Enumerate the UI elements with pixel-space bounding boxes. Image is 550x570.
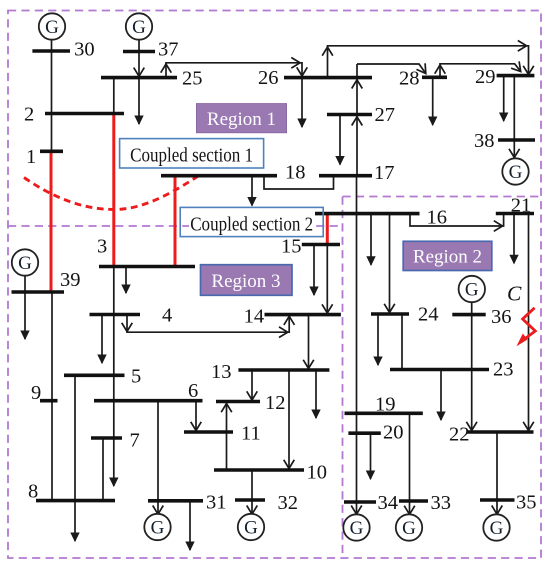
bus 31 bar	[148, 499, 203, 503]
wire line 6-31 to generator G31	[153, 401, 164, 515]
svg-text:2: 2	[24, 104, 34, 126]
bus 12 bar	[216, 400, 260, 404]
wire load arrow below bus 3	[122, 267, 130, 294]
red tie line bus 16 to bus 15 (coupled section 2)	[326, 214, 329, 245]
svg-text:G: G	[18, 253, 32, 274]
wire vertical line buses 3-4-5-6-7 with end arrow	[110, 267, 118, 487]
svg-text:12: 12	[265, 392, 286, 414]
svg-text:6: 6	[188, 380, 198, 402]
wire vertical 26-27-17 with flow arrows	[352, 64, 363, 176]
bus 28 bar	[422, 76, 447, 80]
generator G37	[126, 13, 152, 39]
wire line 7-8	[102, 438, 104, 501]
wire load arrow below bus 31	[186, 501, 194, 550]
wire line 10-11-12 with flow arrow	[221, 402, 232, 471]
wire line 26-28	[357, 63, 426, 73]
bus 37 bar	[123, 50, 155, 54]
bus 15 bar	[302, 243, 340, 247]
svg-text:14: 14	[244, 305, 265, 327]
bus 22 bar	[467, 430, 534, 434]
svg-text:4: 4	[162, 305, 172, 327]
wire bus 2 to bus 1	[51, 114, 53, 152]
svg-text:23: 23	[493, 359, 514, 381]
bus 30 bar	[32, 49, 70, 53]
wire load arrow below bus 26	[298, 78, 306, 127]
svg-text:27: 27	[375, 104, 396, 126]
svg-text:13: 13	[211, 361, 232, 383]
bus 16 bar	[315, 212, 420, 216]
generator G38	[502, 158, 528, 184]
bus 7 bar	[91, 436, 122, 440]
region 2 label box	[403, 241, 492, 270]
bus 11 bar	[184, 430, 233, 434]
bus 18 bar	[161, 174, 277, 178]
bus 36 bar	[452, 313, 485, 317]
wire link line 16-21	[410, 214, 504, 232]
wire line 15-14	[322, 245, 333, 315]
bus 35 bar	[480, 498, 515, 502]
wire line 5-8 and load arrow below bus 8	[71, 375, 79, 541]
bus 34 bar	[344, 500, 376, 504]
bus 5 bar	[64, 373, 125, 377]
wire load arrow below bus 24	[374, 314, 382, 365]
svg-text:10: 10	[307, 462, 328, 484]
bus 21 bar	[496, 212, 534, 216]
svg-text:G: G	[132, 17, 146, 38]
svg-text:G: G	[509, 162, 523, 183]
wire load arrow below bus 23	[437, 370, 445, 421]
svg-text:22: 22	[449, 424, 470, 446]
bus 10 bar	[214, 468, 304, 472]
bus 3 bar	[99, 265, 195, 269]
generator G39	[12, 249, 38, 275]
svg-text:29: 29	[475, 66, 496, 88]
bus 27 bar	[327, 113, 372, 117]
wire line 19-33 to generator G33	[404, 413, 415, 514]
generator G34	[343, 514, 369, 540]
region 1 / region 3 dashed divider	[8, 225, 343, 227]
bus 9 bar	[40, 399, 58, 403]
generator G33	[396, 514, 422, 540]
wire line 22-35 to generator G35	[492, 432, 503, 514]
generator G35	[483, 514, 509, 540]
svg-text:G: G	[244, 518, 258, 539]
wire load arrow below bus 29	[500, 76, 508, 121]
wire line 21-22 (fault line)	[523, 214, 534, 433]
svg-text:37: 37	[158, 39, 179, 61]
bus 13 bar	[238, 368, 329, 372]
svg-text:32: 32	[278, 492, 299, 514]
svg-text:39: 39	[60, 269, 81, 291]
svg-text:26: 26	[258, 67, 279, 89]
svg-text:28: 28	[399, 68, 420, 90]
svg-text:5: 5	[131, 366, 141, 388]
bus 26 bar	[284, 76, 372, 80]
red fault lightning bolt at line C	[517, 308, 536, 346]
svg-text:Region 3: Region 3	[211, 271, 280, 292]
generator G36	[459, 276, 485, 302]
wire line 13-12	[247, 370, 258, 402]
wire line G36-36-23-22	[466, 302, 477, 432]
red tie line bus 1 to bus 39	[50, 151, 53, 292]
bus 33 bar	[399, 499, 428, 503]
bus 6 bar	[94, 399, 203, 403]
wire generator G30 to bus 2	[51, 40, 53, 114]
svg-text:33: 33	[431, 492, 452, 514]
wire load arrow below bus 15	[310, 245, 318, 296]
wire line 25-26	[161, 58, 308, 78]
wire line 6-11	[191, 401, 202, 432]
bus 32 bar	[235, 498, 265, 502]
svg-text:20: 20	[383, 422, 404, 444]
coupled section 1 label box	[120, 139, 264, 168]
bus 4 bar	[90, 313, 141, 317]
coupled section 2 label box	[180, 207, 323, 236]
svg-text:G: G	[151, 518, 165, 539]
wire line 16-24	[384, 214, 395, 314]
wire line 10-32 to generator G32	[247, 470, 258, 514]
svg-text:21: 21	[511, 195, 532, 217]
wire generator G39 to bus 39	[24, 276, 26, 292]
wire vertical line 17-16-19-20-34 to generator G34	[351, 176, 362, 515]
wire load arrow below bus 27	[336, 115, 344, 165]
svg-text:G: G	[350, 518, 364, 539]
wire line 28-29	[435, 61, 521, 77]
svg-text:17: 17	[374, 162, 395, 184]
svg-text:G: G	[402, 518, 416, 539]
bus 8 bar	[36, 499, 115, 503]
wire load arrow below bus 21	[510, 214, 518, 264]
wire load arrow below bus 13	[312, 370, 320, 418]
svg-text:16: 16	[427, 207, 448, 229]
bus 38 bar	[498, 138, 535, 142]
wire line 24-23	[401, 314, 403, 370]
svg-text:Region 2: Region 2	[413, 247, 482, 268]
bus 25 bar	[101, 76, 177, 80]
wire bus 25 to bus 2	[113, 78, 115, 114]
wire link line 4-14	[122, 315, 295, 338]
region 2 dashed left border	[342, 197, 344, 559]
bus 39 bar	[12, 290, 65, 294]
svg-text:C: C	[507, 282, 522, 306]
wire flow arrow bus 4 toward bus 5	[98, 315, 106, 364]
svg-text:3: 3	[97, 236, 107, 258]
svg-text:30: 30	[74, 39, 95, 61]
bus 2 bar	[45, 112, 124, 116]
bus 19 bar	[345, 411, 423, 415]
svg-text:G: G	[465, 280, 479, 301]
svg-text:8: 8	[28, 481, 38, 503]
generator G31	[144, 514, 170, 540]
wire line 14-13	[303, 315, 314, 370]
svg-text:25: 25	[182, 67, 203, 89]
bus 20 bar	[348, 431, 380, 435]
svg-text:18: 18	[285, 162, 306, 184]
wire load arrow below bus 20	[367, 433, 375, 479]
svg-text:38: 38	[474, 130, 495, 152]
red dashed coupling curve	[24, 176, 199, 210]
bus 23 bar	[390, 368, 489, 372]
svg-text:19: 19	[375, 394, 396, 416]
wire load arrow below bus 28	[429, 77, 437, 125]
wire line 13-10	[284, 370, 295, 470]
svg-text:34: 34	[378, 492, 399, 514]
red tie line bus 2 to bus 3 (coupled section 1)	[112, 114, 115, 267]
wire line 26-29 upper route	[322, 41, 534, 78]
svg-text:Coupled section 1: Coupled section 1	[130, 145, 253, 167]
svg-text:Coupled section 2: Coupled section 2	[190, 214, 313, 236]
svg-text:11: 11	[241, 423, 261, 445]
region 3 label box	[201, 265, 293, 296]
svg-text:9: 9	[31, 382, 41, 404]
wire line 39-9-8	[51, 292, 53, 501]
svg-text:Region 1: Region 1	[207, 109, 276, 130]
svg-text:31: 31	[206, 492, 227, 514]
svg-text:1: 1	[26, 146, 36, 168]
bus 14 bar	[265, 313, 341, 317]
bus 29 bar	[497, 74, 535, 78]
wire link bus 18 to bus 17	[264, 176, 334, 189]
wire load arrow below bus 39	[21, 292, 29, 339]
bus 17 bar	[319, 174, 372, 178]
generator G30	[39, 13, 65, 39]
svg-text:15: 15	[281, 236, 302, 258]
wire bus 38 to generator G38	[509, 140, 520, 158]
bus 24 bar	[371, 312, 409, 316]
wire line 29-38	[513, 76, 515, 140]
generator G32	[238, 514, 264, 540]
svg-text:36: 36	[491, 306, 512, 328]
wire generator G37 through bus 37 to bus 25 and load arrow at bus 25	[134, 40, 145, 125]
svg-text:24: 24	[418, 304, 439, 326]
svg-text:7: 7	[130, 430, 140, 452]
bus 1 bar	[40, 150, 63, 154]
svg-text:G: G	[45, 17, 59, 38]
region 2 dashed top border	[343, 196, 542, 198]
red tie line bus 18 to bus 3 (coupled section 1)	[174, 176, 177, 267]
svg-text:G: G	[490, 518, 504, 539]
wire load arrow below bus 18	[248, 176, 256, 206]
wire load arrow below bus 16	[367, 214, 375, 265]
region 1 label box	[197, 104, 287, 133]
svg-text:35: 35	[516, 492, 537, 514]
